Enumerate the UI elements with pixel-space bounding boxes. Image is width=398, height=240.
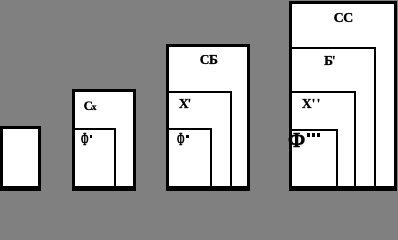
label X' — [179, 97, 191, 111]
inner rect X'' — [292, 91, 357, 187]
label F' — [81, 135, 92, 148]
label X'' — [302, 97, 322, 111]
label F''' — [288, 132, 303, 149]
box R1 (empty smallest rectangle) — [0, 126, 41, 191]
inner rect F' — [75, 128, 117, 186]
inner rect B' — [292, 47, 376, 186]
label SB — [200, 53, 217, 67]
box R2 (system Cx) — [72, 89, 137, 191]
box R4 (system SS) — [289, 1, 397, 191]
inner rect X' — [169, 91, 232, 186]
box R3 (system SB) — [166, 44, 250, 191]
label SS — [334, 12, 353, 26]
label F'' — [177, 135, 188, 148]
label B' — [324, 54, 336, 68]
label Cx — [84, 99, 97, 114]
inner rect F'' — [169, 128, 212, 186]
inner rect F''' — [292, 129, 338, 186]
